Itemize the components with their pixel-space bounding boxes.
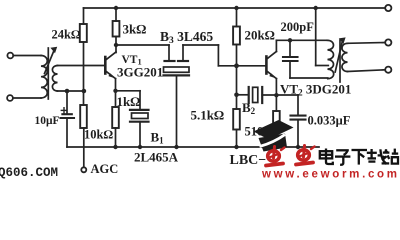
- svg-text:2L465A: 2L465A: [134, 150, 179, 165]
- svg-text:LBC−: LBC−: [230, 153, 267, 168]
- svg-text:AGC: AGC: [91, 162, 119, 176]
- svg-text:5.1kΩ: 5.1kΩ: [191, 108, 224, 123]
- svg-text:10μF: 10μF: [35, 115, 60, 127]
- svg-text:10kΩ: 10kΩ: [84, 127, 113, 141]
- svg-text:3GG201: 3GG201: [117, 65, 163, 80]
- svg-text:www.eeworm.com: www.eeworm.com: [261, 169, 400, 181]
- svg-text:3kΩ: 3kΩ: [123, 22, 147, 37]
- svg-text:VT2 3DG201: VT2 3DG201: [280, 82, 351, 98]
- svg-text:0.033μF: 0.033μF: [308, 113, 351, 127]
- svg-text:B3 3L465: B3 3L465: [160, 29, 213, 46]
- svg-text:20kΩ: 20kΩ: [245, 28, 275, 43]
- svg-text:Q606.COM: Q606.COM: [0, 166, 58, 180]
- svg-text:24kΩ: 24kΩ: [52, 28, 81, 42]
- svg-text:200pF: 200pF: [281, 20, 315, 34]
- svg-text:B1: B1: [151, 130, 165, 146]
- svg-text:1kΩ: 1kΩ: [117, 94, 141, 109]
